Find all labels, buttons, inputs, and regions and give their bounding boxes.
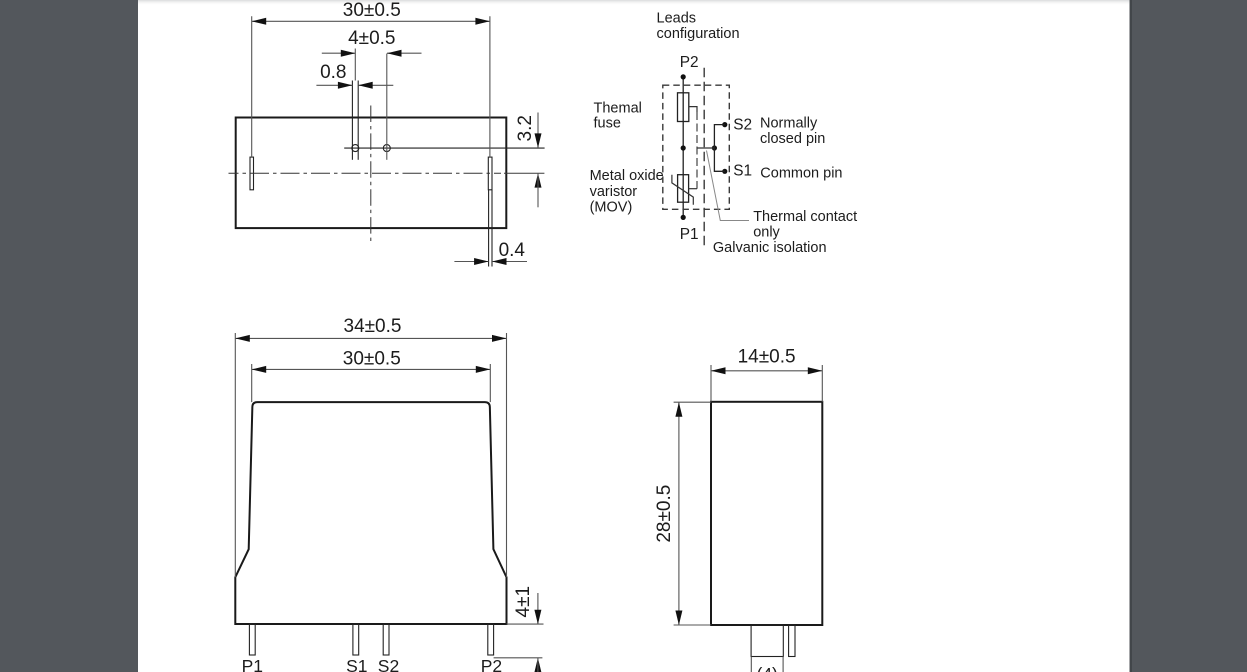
svg-text:Common pin: Common pin: [760, 166, 842, 182]
svg-text:4±1: 4±1: [513, 586, 534, 618]
svg-text:only: only: [753, 224, 780, 240]
svg-text:Leads: Leads: [657, 10, 697, 26]
svg-text:28±0.5: 28±0.5: [654, 485, 675, 543]
svg-text:Metal oxide: Metal oxide: [590, 168, 664, 184]
svg-text:Themal: Themal: [594, 101, 642, 117]
svg-text:P1: P1: [680, 226, 699, 243]
svg-text:P1: P1: [242, 656, 263, 672]
svg-text:30±0.5: 30±0.5: [343, 349, 401, 370]
svg-text:configuration: configuration: [657, 26, 740, 42]
svg-text:Thermal contact: Thermal contact: [753, 209, 857, 225]
svg-text:(4): (4): [757, 664, 778, 672]
svg-text:varistor: varistor: [590, 184, 638, 200]
svg-text:30±0.5: 30±0.5: [343, 0, 401, 21]
svg-text:0.4: 0.4: [499, 240, 526, 261]
svg-text:S2: S2: [733, 117, 752, 134]
svg-text:(MOV): (MOV): [590, 200, 633, 216]
svg-text:closed pin: closed pin: [760, 131, 825, 147]
svg-text:0.8: 0.8: [320, 62, 346, 83]
svg-text:Normally: Normally: [760, 116, 818, 132]
svg-text:S1: S1: [733, 163, 752, 180]
svg-text:14±0.5: 14±0.5: [738, 347, 796, 368]
svg-text:Galvanic isolation: Galvanic isolation: [713, 240, 827, 256]
svg-text:P2: P2: [680, 54, 699, 71]
svg-text:S1: S1: [346, 656, 367, 672]
svg-text:34±0.5: 34±0.5: [344, 316, 402, 337]
svg-text:4±0.5: 4±0.5: [348, 28, 395, 49]
svg-text:fuse: fuse: [594, 116, 621, 132]
svg-text:3.2: 3.2: [515, 115, 536, 141]
svg-text:S2: S2: [378, 656, 399, 672]
